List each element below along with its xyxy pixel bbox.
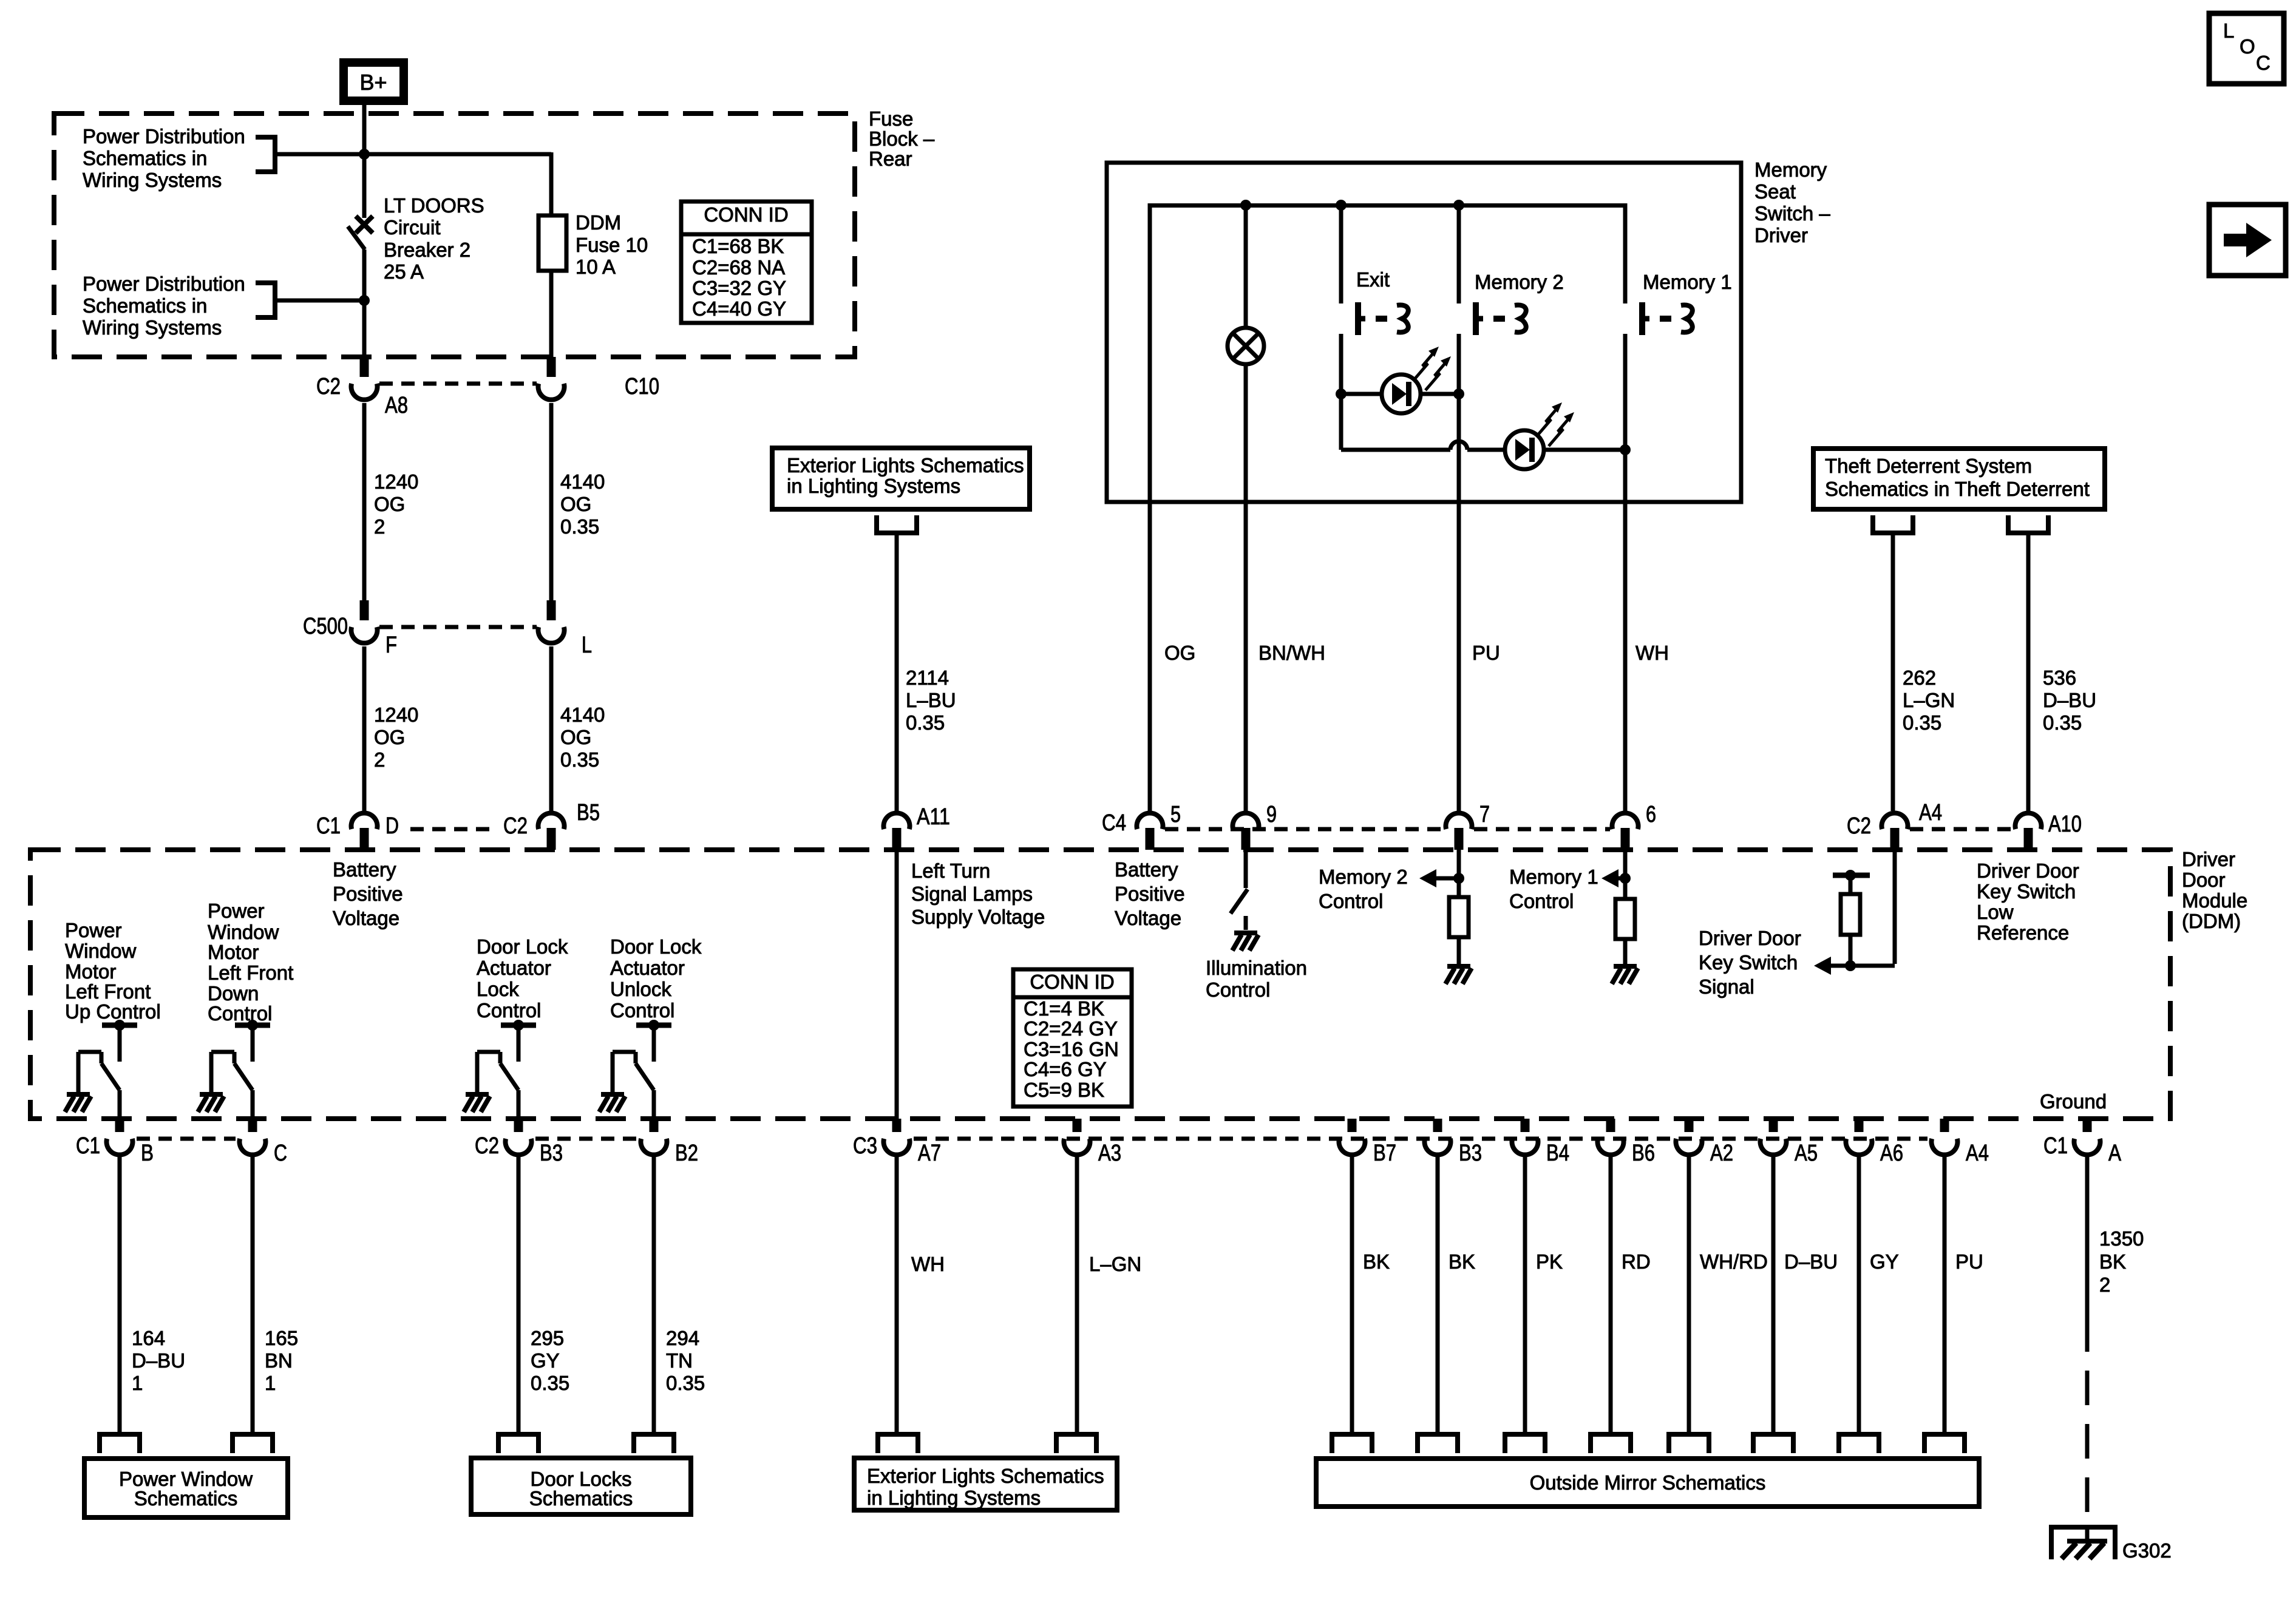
svg-text:Positive: Positive [333,883,403,905]
node led2-memory1 junction [1620,444,1631,455]
outside mirror terminal at 2921 [1753,1434,1793,1453]
wire PU to outside mirror [1943,1155,1947,1434]
labels pin D [316,813,399,839]
Exit label [1356,268,1390,291]
svg-text:Schematics: Schematics [529,1487,633,1510]
svg-text:2: 2 [374,748,385,771]
Memory 1 label [1643,271,1732,293]
LED D2 exit-memory1 [1505,402,1574,469]
outside mirror terminal at 2368 [1418,1434,1458,1453]
svg-text:Module: Module [2182,889,2247,912]
battery positive voltage B+ symbol [339,58,408,105]
wire WH to exterior lights [895,1155,899,1434]
wire label PU [1472,642,1500,664]
circuit breaker CB2 arm [348,226,365,249]
wire label RD [1622,1250,1651,1273]
svg-text:L–GN: L–GN [1089,1253,1141,1275]
svg-text:Control: Control [610,999,674,1022]
svg-text:A: A [2108,1141,2122,1166]
connector pin 6 at DDM top [1612,813,1639,850]
svg-text:Up Control: Up Control [65,1000,161,1023]
memory seat internal bus wire [1150,206,1625,208]
power distribution callout 2 text [83,273,245,339]
connector pin A11 at DDM top [884,813,910,850]
svg-text:PU: PU [1472,642,1500,664]
svg-text:Signal: Signal [1699,975,1754,998]
svg-text:GY: GY [531,1349,560,1372]
svg-text:B2: B2 [675,1141,698,1166]
outside mirror terminal at 3203 [1924,1434,1965,1453]
node junction on breaker feed [359,149,370,160]
memory 2 control circuit [1419,850,1472,984]
outside mirror terminal at 2782 [1669,1434,1709,1453]
connector dotted tie B-C [137,1137,236,1141]
memory seat switch label [1754,158,1830,246]
svg-text:A3: A3 [1098,1141,1121,1166]
door lock actuator lock switch [464,1020,536,1119]
svg-text:BN: BN [265,1349,293,1372]
svg-text:Memory 1: Memory 1 [1509,866,1598,888]
driver door module dashed outline [30,850,2170,1119]
svg-text:294: 294 [666,1327,699,1349]
svg-text:RD: RD [1622,1250,1651,1273]
connector pin B7 at DDM bottom [1339,1119,1365,1155]
connector pin A3 at DDM bottom [1064,1119,1090,1155]
wire 294 TN [652,1155,656,1434]
svg-text:Memory 1: Memory 1 [1643,271,1732,293]
svg-text:Door: Door [2182,869,2226,891]
svg-text:in Lighting Systems: in Lighting Systems [867,1486,1041,1509]
svg-text:L: L [582,632,592,658]
labels bottom pin B4 [1546,1141,1569,1166]
battery positive voltage label D [333,858,403,929]
svg-text:Left Front: Left Front [208,961,293,984]
svg-text:Key Switch: Key Switch [1699,951,1798,974]
svg-text:A2: A2 [1710,1141,1733,1166]
svg-text:Exterior Lights Schematics: Exterior Lights Schematics [787,454,1024,476]
svg-text:Illumination: Illumination [1206,957,1307,979]
LT DOORS circuit breaker label [384,194,484,283]
wire label BN/WH [1258,642,1325,664]
svg-text:Low: Low [1977,901,2014,923]
svg-text:2114: 2114 [906,666,949,689]
svg-text:7: 7 [1479,802,1490,827]
wire label 1240 OG 2 lower [374,703,418,771]
svg-text:0.35: 0.35 [1903,711,1941,734]
labels pin A4 [1847,800,1942,839]
wire label GY [1870,1250,1899,1273]
svg-text:A4: A4 [1919,800,1942,825]
memory seat switch - driver box [1107,163,1741,502]
wire B+ to circuit breaker [362,105,367,218]
outside mirror schematics box [1316,1459,1979,1507]
labels bottom pin A5 [1795,1141,1818,1166]
svg-text:Actuator: Actuator [610,957,685,979]
svg-text:Exterior Lights Schematics: Exterior Lights Schematics [867,1465,1104,1487]
svg-text:C2: C2 [1847,813,1871,839]
labels pin A10 [2048,812,2082,837]
driver door key switch circuit [1814,850,1895,975]
fuse F10 DDM Fuse 10 [538,215,566,271]
svg-text:Schematics: Schematics [134,1487,238,1510]
svg-text:4140: 4140 [560,703,605,726]
svg-text:Control: Control [1509,890,1574,912]
outside mirror terminal at 2227 [1332,1434,1372,1453]
wire label WH/RD [1700,1250,1768,1273]
svg-text:F: F [385,632,397,658]
wire label L-GN bottom [1089,1253,1141,1275]
svg-text:Left Front: Left Front [65,980,151,1003]
svg-text:OG: OG [374,493,405,515]
door locks terminal B3 [498,1434,538,1453]
wire label D–BU [1784,1250,1838,1273]
svg-text:A4: A4 [1966,1141,1989,1166]
power window motor up label [65,919,161,1023]
Ground label [2040,1090,2107,1113]
svg-text:Supply Voltage: Supply Voltage [911,906,1045,928]
connector C2 pin A8 labels [316,374,408,418]
labels bottom pin B3 [1459,1141,1482,1166]
connector dotted tie C4 pins [1165,827,1444,832]
fuse block - rear label [869,107,935,170]
connector pin A4 at DDM bottom [1932,1119,1958,1155]
svg-text:WH: WH [1635,642,1669,664]
svg-text:OG: OG [1164,642,1195,664]
svg-text:10 A: 10 A [576,256,616,278]
svg-text:0.35: 0.35 [2043,711,2082,734]
wire 1350 BK solid part [2085,1155,2090,1317]
wire label 262 L-GN 0.35 [1903,666,1955,734]
svg-text:C1: C1 [2043,1133,2068,1159]
svg-text:C4=6 GY: C4=6 GY [1024,1058,1107,1080]
svg-text:0.35: 0.35 [560,748,599,771]
arrow continuation box [2209,205,2286,276]
svg-text:D–BU: D–BU [1784,1250,1838,1273]
power window motor up switch [65,1020,137,1119]
svg-text:2: 2 [2099,1273,2110,1296]
connector pin B2 at DDM bottom [641,1119,667,1155]
svg-text:C: C [2256,52,2271,74]
svg-text:1: 1 [132,1372,143,1394]
svg-text:C3: C3 [853,1133,877,1159]
power window motor down switch [198,1020,270,1119]
wire 262 L-GN [1891,533,1895,811]
svg-text:O: O [2240,35,2255,58]
connector dotted tie C500 [379,625,537,629]
svg-text:C1: C1 [76,1133,100,1159]
connector pin B3 at DDM bottom [506,1119,532,1155]
svg-text:BK: BK [1449,1250,1475,1273]
exterior lights terminal A7 [878,1434,918,1453]
labels bottom pin A2 [1710,1141,1733,1166]
wire label 1240 OG 2 upper [374,470,418,538]
svg-text:Driver Door: Driver Door [1699,927,1801,949]
svg-text:Schematics in: Schematics in [83,294,207,317]
wire LED1 row [1341,392,1459,396]
svg-text:Motor: Motor [65,960,116,983]
svg-text:DDM: DDM [576,211,621,234]
connector pin D at DDM top [352,813,378,850]
wire L to C2/B5 [549,646,554,811]
exterior lights schematics bottom box [854,1458,1117,1510]
svg-text:D–BU: D–BU [2043,689,2096,711]
svg-text:Fuse: Fuse [869,107,913,130]
wire LED2 row with hop [1341,441,1625,450]
wire label 1350 BK 2 [2099,1227,2144,1296]
svg-text:0.35: 0.35 [531,1372,569,1394]
svg-text:A11: A11 [917,804,950,830]
svg-text:Schematics in Theft Deterrent: Schematics in Theft Deterrent [1825,478,2090,500]
connector C2 pin A8 [352,357,378,400]
svg-text:D: D [385,813,399,839]
bus junction lamp [1240,200,1251,211]
LOC reference box [2209,13,2284,84]
outside mirror terminal at 2653 [1591,1434,1631,1453]
svg-text:BK: BK [1363,1250,1390,1273]
svg-text:C2: C2 [475,1133,499,1159]
connector C10 label [625,374,659,399]
svg-text:Driver Door: Driver Door [1977,859,2079,882]
svg-text:L–GN: L–GN [1903,689,1955,711]
svg-text:Memory 2: Memory 2 [1475,271,1564,293]
connector pin A at DDM bottom [2074,1119,2101,1155]
svg-text:D–BU: D–BU [132,1349,185,1372]
svg-text:(DDM): (DDM) [2182,910,2241,932]
svg-text:Down: Down [208,982,259,1005]
svg-text:262: 262 [1903,666,1936,689]
svg-text:Wiring Systems: Wiring Systems [83,169,222,191]
connector C500 pin F [352,600,378,643]
driver door key switch low reference label [1977,859,2079,944]
connector pin B at DDM bottom [107,1119,133,1155]
svg-text:B: B [141,1141,154,1166]
wire from callout 1 to B+ feed [275,152,551,157]
connector C500 labels [303,614,397,658]
wire feed to DDM fuse [549,152,551,215]
svg-text:Control: Control [477,999,541,1022]
svg-text:Switch –: Switch – [1754,202,1830,225]
wire A11 inside DDM [895,850,899,1119]
svg-text:G302: G302 [2122,1539,2172,1562]
outside mirror terminal at 2512 [1505,1434,1545,1453]
svg-text:0.35: 0.35 [906,711,945,734]
wire label WH [1635,642,1669,664]
wire label PK [1536,1250,1563,1273]
svg-text:Unlock: Unlock [610,978,671,1000]
svg-text:A8: A8 [385,393,408,418]
labels bottom pin A6 [1880,1141,1903,1166]
power window schematics box [84,1459,288,1517]
svg-text:Exit: Exit [1356,268,1390,291]
svg-text:C3=16 GN: C3=16 GN [1024,1038,1119,1060]
illumination control label [1206,957,1307,1001]
svg-text:Outside Mirror Schematics: Outside Mirror Schematics [1530,1471,1766,1494]
wire A8 to C500 [362,403,367,600]
labels pin A11 [917,804,950,830]
CONN ID table DDM [1013,969,1132,1107]
wire label WH bottom [911,1253,945,1275]
connector C500 pin L label [582,632,592,658]
svg-text:WH: WH [911,1253,945,1275]
svg-text:B5: B5 [577,800,600,825]
wire label OG [1164,642,1195,664]
connector pin B4 at DDM bottom [1512,1119,1538,1155]
switch Exit pushbutton [1358,302,1408,335]
connector pin A2 at DDM bottom [1676,1119,1702,1155]
exterior lights schematics top box [772,448,1030,509]
labels bottom pin B [76,1133,154,1166]
svg-text:Driver: Driver [2182,848,2235,870]
illumination lamp symbol [1228,328,1264,364]
connector dotted tie A4-A10 [1910,827,2013,832]
door locks schematics box [471,1458,691,1514]
wire label 4140 OG 0.35 upper [560,470,605,538]
connector pin B6 at DDM bottom [1598,1119,1624,1155]
wire breaker to connector C2 [362,249,367,357]
wire D–BU to outside mirror [1771,1155,1776,1434]
svg-text:536: 536 [2043,666,2076,689]
wire BK to outside mirror [1436,1155,1440,1434]
svg-text:C1=68 BK: C1=68 BK [692,235,784,257]
connector pin A4 at DDM top [1881,813,1907,850]
svg-text:BN/WH: BN/WH [1258,642,1325,664]
svg-text:Power Distribution: Power Distribution [83,125,245,147]
svg-text:Left Turn: Left Turn [911,859,990,882]
svg-text:1240: 1240 [374,470,418,493]
connector pin A6 at DDM bottom [1846,1119,1872,1155]
svg-text:1240: 1240 [374,703,418,726]
svg-text:Schematics in: Schematics in [83,147,207,169]
svg-text:C500: C500 [303,614,348,639]
connector pin 9 at DDM top [1233,813,1259,850]
svg-text:PU: PU [1955,1250,1983,1273]
svg-text:Battery: Battery [1115,858,1178,881]
svg-text:C: C [274,1141,287,1166]
labels bottom pin A4 [1966,1141,1989,1166]
wire 295 GY [517,1155,521,1434]
CONN ID table fuse block [681,202,812,323]
svg-text:in Lighting Systems: in Lighting Systems [787,475,960,497]
svg-text:Power: Power [208,900,265,922]
connector pin B3 at DDM bottom [1425,1119,1451,1155]
svg-text:1350: 1350 [2099,1227,2144,1250]
wire 536 D-BU [2026,533,2031,811]
wire RD to outside mirror [1609,1155,1613,1434]
svg-text:LT DOORS: LT DOORS [384,194,484,217]
wire fuse to connector C10 [549,271,554,357]
wire L-GN to exterior lights [1075,1155,1079,1434]
connector pin B5 at DDM top [538,813,565,850]
LED D1 exit-memory2 [1382,347,1451,413]
wire GY to outside mirror [1857,1155,1861,1434]
svg-text:9: 9 [1266,802,1277,827]
wire label 165 BN 1 [265,1327,298,1394]
connector pin A10 at DDM top [2016,813,2042,850]
svg-text:C2=24 GY: C2=24 GY [1024,1017,1118,1040]
svg-text:OG: OG [560,726,591,748]
wire lamp to pin 9 [1244,364,1248,811]
memory 1 control circuit [1601,850,1638,984]
svg-text:B6: B6 [1632,1141,1655,1166]
wire label 294 TN 0.35 [666,1327,705,1394]
svg-text:Wiring Systems: Wiring Systems [83,316,222,339]
svg-text:Memory 2: Memory 2 [1319,866,1408,888]
svg-text:165: 165 [265,1327,298,1349]
svg-text:Driver: Driver [1754,224,1808,246]
svg-text:Theft Deterrent System: Theft Deterrent System [1825,455,2032,477]
connector C10 pin [538,357,564,400]
wire BK to outside mirror [1350,1155,1354,1434]
svg-text:1: 1 [265,1372,276,1394]
power window terminal C [233,1434,273,1453]
memory 2 control label [1319,866,1408,912]
wire WH/RD to outside mirror [1687,1155,1691,1434]
svg-text:Ground: Ground [2040,1090,2107,1113]
wire 2114 L-BU [895,533,899,811]
labels bottom pin B7 [1373,1141,1396,1166]
wire label 295 GY 0.35 [531,1327,569,1394]
svg-text:C10: C10 [625,374,659,399]
labels pin 9 [1266,802,1277,827]
power window motor down label [208,900,293,1025]
exterior lights top terminal [877,515,917,533]
circuit breaker CB2 contact X [356,216,373,233]
wire memory2 branch upper [1457,205,1461,303]
svg-text:Battery: Battery [333,858,396,881]
svg-text:Key Switch: Key Switch [1977,880,2076,903]
svg-text:A6: A6 [1880,1141,1903,1166]
svg-text:C2: C2 [316,374,341,399]
svg-text:C4=40 GY: C4=40 GY [692,297,786,320]
wire memory2 branch to pin 7 [1457,334,1461,811]
power distribution callout 1 bracket [256,137,275,172]
bus junction memory2 [1453,200,1464,211]
svg-text:C1: C1 [316,813,341,839]
svg-text:Reference: Reference [1977,921,2069,944]
wire label 164 D-BU 1 [132,1327,185,1394]
svg-text:Window: Window [65,940,137,962]
labels bottom pin B2 [675,1141,698,1166]
wire exit branch upper [1339,205,1343,303]
wire label BK [1449,1250,1475,1273]
svg-text:WH/RD: WH/RD [1700,1250,1768,1273]
connector pin A5 at DDM bottom [1760,1119,1786,1155]
wire 164 D-BU [118,1155,122,1434]
svg-text:Voltage: Voltage [1115,907,1181,929]
svg-text:Circuit: Circuit [384,216,441,239]
svg-text:C2: C2 [503,813,528,839]
svg-text:Actuator: Actuator [477,957,551,979]
svg-text:Block –: Block – [869,127,935,150]
connector pin 5 at DDM top [1137,813,1163,850]
connector dotted tie B3-B2 [535,1137,637,1141]
svg-text:C4: C4 [1102,810,1126,836]
svg-text:CONN ID: CONN ID [1030,971,1114,993]
svg-text:B4: B4 [1546,1141,1569,1166]
svg-text:295: 295 [531,1327,564,1349]
labels bottom pin A7 [853,1133,941,1166]
svg-text:Motor: Motor [208,941,259,963]
svg-text:L: L [2223,19,2234,42]
labels bottom pin C [274,1141,287,1166]
labels pin B5 [503,800,600,839]
wire label 2114 L-BU 0.35 [906,666,956,734]
connector pin C at DDM bottom [240,1119,266,1155]
wire label 4140 OG 0.35 lower [560,703,605,771]
connector pin A7 at DDM bottom [884,1119,910,1155]
svg-text:Power: Power [65,919,122,941]
door lock actuator lock label [477,935,568,1022]
